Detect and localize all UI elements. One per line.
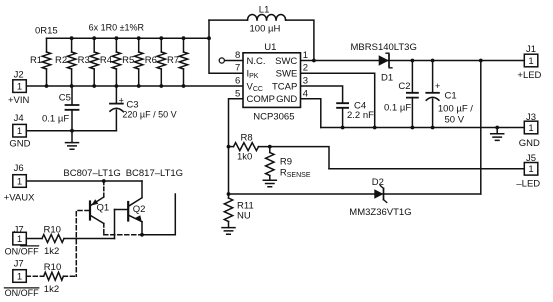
svg-text:+VAUX: +VAUX bbox=[4, 192, 35, 203]
svg-text:1: 1 bbox=[17, 176, 22, 187]
resistor R7 bbox=[167, 38, 188, 86]
wire D2 node line bbox=[229, 193, 481, 195]
pin 8 N.C. open circle bbox=[219, 58, 243, 63]
svg-text:100 µF /: 100 µF / bbox=[438, 104, 473, 115]
wire pin3 TCAP to C4 bbox=[301, 86, 343, 103]
svg-text:SWC: SWC bbox=[275, 56, 297, 67]
svg-text:C5: C5 bbox=[59, 93, 71, 104]
svg-text:+: + bbox=[119, 95, 124, 105]
ground at R9 bbox=[263, 176, 276, 187]
ground at R11 bbox=[222, 222, 235, 235]
svg-text:TCAP: TCAP bbox=[272, 82, 297, 93]
svg-text:100 µH: 100 µH bbox=[250, 24, 281, 35]
ground at C5 bbox=[66, 131, 79, 150]
connector J2 bbox=[8, 69, 30, 106]
capacitor C1 electrolytic bbox=[426, 61, 473, 128]
svg-text:RSENSE: RSENSE bbox=[280, 168, 311, 180]
svg-text:R9: R9 bbox=[280, 157, 292, 168]
svg-text:1k0: 1k0 bbox=[237, 151, 252, 162]
svg-text:2: 2 bbox=[303, 63, 308, 74]
connector J1 bbox=[517, 44, 541, 81]
svg-text:1: 1 bbox=[528, 56, 533, 67]
wire pin2 SWE down to ground rail bbox=[301, 73, 375, 127]
svg-text:3: 3 bbox=[303, 76, 308, 87]
svg-text:Q1: Q1 bbox=[97, 202, 110, 213]
capacitor C5 bbox=[42, 86, 79, 131]
transistor Q2 BC817-LT1G npn bbox=[115, 168, 184, 235]
connector J3 bbox=[519, 112, 540, 149]
svg-text:0R15: 0R15 bbox=[35, 26, 58, 37]
resistor R10 upper 1k2 bbox=[26, 225, 114, 258]
svg-text:2.2 nF: 2.2 nF bbox=[347, 110, 374, 121]
svg-text:0.1 µF: 0.1 µF bbox=[42, 113, 69, 124]
resistor R4 bbox=[100, 38, 121, 86]
svg-text:1: 1 bbox=[528, 164, 533, 175]
resistor R8 1k0 bbox=[229, 133, 259, 163]
svg-text:1: 1 bbox=[17, 81, 22, 92]
capacitor C3 electrolytic bbox=[110, 86, 177, 131]
connector J6 bbox=[4, 163, 35, 204]
svg-text:R4: R4 bbox=[100, 55, 112, 66]
svg-text:SWE: SWE bbox=[276, 69, 298, 80]
svg-text:R6: R6 bbox=[145, 55, 157, 66]
connector J7 inverted on/off bbox=[4, 259, 39, 298]
svg-text:C1: C1 bbox=[445, 90, 457, 101]
svg-text:D2: D2 bbox=[372, 177, 384, 188]
svg-text:+VIN: +VIN bbox=[8, 95, 30, 106]
resistor R5 bbox=[122, 38, 143, 86]
capacitor C4 2.2nF bbox=[337, 101, 374, 128]
svg-text:MM3Z36VT1G: MM3Z36VT1G bbox=[349, 207, 411, 218]
wire L1 top to SWC bbox=[209, 20, 314, 60]
svg-text:1: 1 bbox=[303, 50, 308, 61]
svg-text:5: 5 bbox=[235, 88, 240, 99]
svg-text:+: + bbox=[435, 81, 440, 91]
resistor R9 Rsense bbox=[266, 147, 311, 179]
wire Q2 emitter node to COMP node bbox=[142, 194, 175, 235]
resistor R10 lower 1k2 bbox=[26, 262, 76, 295]
op-amp U1 NCP3065 box bbox=[243, 42, 301, 123]
svg-text:R8: R8 bbox=[241, 133, 253, 144]
wire R10 to Q2 base bbox=[114, 210, 116, 239]
svg-text:GND: GND bbox=[9, 139, 30, 150]
wire R8 node to J5 sense bbox=[259, 147, 330, 169]
svg-text:J1: J1 bbox=[526, 44, 536, 55]
svg-text:BC817–LT1G: BC817–LT1G bbox=[126, 168, 183, 179]
svg-text:GND: GND bbox=[519, 138, 540, 149]
svg-text:50 V: 50 V bbox=[445, 115, 465, 126]
ground on output rail bbox=[491, 128, 504, 141]
capacitor C2 bbox=[384, 61, 418, 128]
svg-text:R10: R10 bbox=[44, 262, 61, 273]
svg-text:1: 1 bbox=[17, 271, 22, 282]
wire pin5 COMP down to feedback node bbox=[229, 99, 244, 194]
svg-text:1k2: 1k2 bbox=[44, 246, 59, 257]
svg-text:R3: R3 bbox=[78, 55, 90, 66]
svg-text:MBRS140LT3G: MBRS140LT3G bbox=[351, 42, 417, 53]
svg-text:–LED: –LED bbox=[516, 179, 540, 190]
resistor R6 bbox=[145, 38, 166, 86]
svg-text:ON/OFF: ON/OFF bbox=[5, 247, 39, 257]
inductor L1 100 uH bbox=[248, 4, 286, 34]
svg-text:J4: J4 bbox=[14, 113, 24, 124]
wire bottom rail J2 to VCC pin 6 bbox=[26, 85, 243, 87]
svg-text:GND: GND bbox=[276, 94, 297, 105]
svg-text:R1: R1 bbox=[30, 55, 42, 66]
svg-text:4: 4 bbox=[303, 88, 308, 99]
wire top rail of sense resistors bbox=[47, 37, 210, 39]
svg-text:R2: R2 bbox=[55, 55, 67, 66]
svg-text:ON/OFF: ON/OFF bbox=[5, 288, 39, 297]
svg-text:6x 1R0 ±1%R: 6x 1R0 ±1%R bbox=[89, 23, 145, 33]
svg-text:1k2: 1k2 bbox=[44, 284, 59, 295]
svg-text:J7: J7 bbox=[14, 259, 24, 270]
svg-text:NCP3065: NCP3065 bbox=[253, 112, 294, 123]
diode D2 MM3Z36VT1G zener bbox=[349, 177, 411, 218]
wire D2 cathode up to +LED rail bbox=[480, 61, 482, 195]
svg-text:U1: U1 bbox=[264, 42, 276, 53]
svg-text:0.1 µF: 0.1 µF bbox=[384, 103, 411, 114]
diode D1 MBRS140LT3G schottky bbox=[351, 42, 417, 83]
svg-text:J2: J2 bbox=[14, 69, 24, 80]
resistor R2 bbox=[55, 38, 76, 86]
svg-text:6: 6 bbox=[235, 76, 240, 87]
svg-text:Q2: Q2 bbox=[133, 204, 146, 215]
svg-text:NU: NU bbox=[237, 210, 251, 221]
wire J5 -LED bbox=[329, 168, 524, 170]
connector J5 bbox=[516, 153, 540, 190]
wire J4 ground line bbox=[26, 130, 116, 132]
svg-text:R7: R7 bbox=[167, 55, 179, 66]
wire L1 left vertical / IPK pin 7 feed bbox=[209, 20, 243, 73]
svg-text:BC807–LT1G: BC807–LT1G bbox=[63, 168, 120, 179]
svg-text:J6: J6 bbox=[14, 163, 24, 174]
svg-text:R10: R10 bbox=[44, 225, 61, 236]
transistor Q1 BC807-LT1G pnp bbox=[63, 168, 142, 235]
svg-text:C2: C2 bbox=[398, 81, 410, 92]
svg-text:1: 1 bbox=[528, 123, 533, 134]
wire pin1 SWC to +LED rail bbox=[301, 60, 525, 62]
svg-text:+LED: +LED bbox=[517, 70, 541, 81]
svg-text:COMP: COMP bbox=[247, 94, 276, 105]
wire ground rail to J3 bbox=[321, 127, 525, 129]
connector J7 on/off bbox=[5, 224, 39, 256]
pin numbers left bbox=[235, 50, 240, 99]
resistor R1 bbox=[30, 38, 51, 86]
svg-text:R5: R5 bbox=[122, 55, 134, 66]
resistor R3 bbox=[78, 38, 99, 86]
connector J4 bbox=[9, 113, 30, 150]
pin numbers right bbox=[303, 50, 308, 99]
svg-text:D1: D1 bbox=[381, 73, 393, 84]
svg-text:N.C.: N.C. bbox=[247, 56, 266, 67]
wire Q1 base dashed to lower J7 bbox=[76, 211, 89, 277]
svg-text:8: 8 bbox=[235, 50, 240, 61]
svg-text:7: 7 bbox=[235, 63, 240, 74]
svg-text:L1: L1 bbox=[259, 4, 270, 15]
resistor R11 NU bbox=[224, 194, 253, 222]
svg-text:1: 1 bbox=[17, 234, 22, 245]
wire pin4 GND down bbox=[301, 99, 321, 128]
wire J6 +VAUX to Q2 collector bbox=[26, 180, 142, 182]
svg-text:1: 1 bbox=[17, 126, 22, 137]
svg-text:220 µF / 50 V: 220 µF / 50 V bbox=[122, 110, 176, 120]
